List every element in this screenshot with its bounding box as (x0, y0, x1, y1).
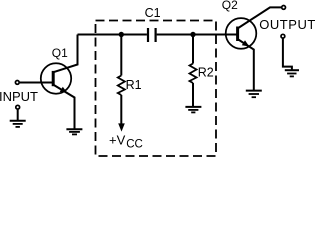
svg-text:+V: +V (109, 133, 126, 148)
svg-text:C1: C1 (145, 6, 161, 20)
svg-text:Q1: Q1 (52, 46, 68, 60)
svg-text:Q2: Q2 (222, 0, 238, 12)
svg-text:INPUT: INPUT (0, 89, 38, 104)
svg-text:CC: CC (126, 139, 143, 151)
svg-text:R1: R1 (126, 78, 142, 92)
svg-text:OUTPUT: OUTPUT (259, 17, 316, 32)
svg-text:R2: R2 (198, 66, 214, 80)
